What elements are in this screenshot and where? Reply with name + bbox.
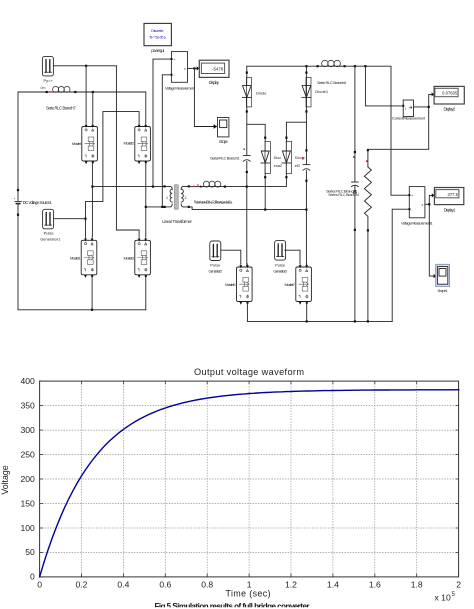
output voltage curve [40,390,459,577]
wire: drop to Mosfet drain port [92,92,94,123]
wire: top bus y=66.2 rectifier output [247,65,321,67]
svg-text:Display2: Display2 [444,106,456,111]
wire: main secondary to Diode3 bottom [247,174,287,187]
wire: bottom bus2 y=321.4 [247,320,392,322]
wire: VM1 output to Display1 and Scope1 [425,195,434,276]
node: junction feeding Mosfet drain [92,91,94,93]
node: right leg mid junction [145,206,147,208]
resistor red polarity tick at L7 left [49,91,51,92]
grid vertical dotted [81,381,83,577]
diode Diode2 (small left snubber) [261,142,270,174]
svg-text:Generator3: Generator3 [273,268,287,273]
svg-text:0: 0 [37,580,42,590]
wire: secondary top to L5 [189,186,203,188]
wire: top bus after L6 to corner x=391 [341,66,409,195]
Display block (-5478) [197,66,200,70]
wire: left leg midpoint down Mosfet to Mosfet1 [91,161,93,236]
svg-text:-5478: -5478 [212,66,224,71]
grid horizontal dotted [40,551,459,553]
Display1 block (377.5) [434,188,463,205]
node: VM plus tap [152,186,154,188]
diode Diode (big left) [242,77,251,107]
wire: PG3 to Mosfet7 gate [285,250,300,263]
svg-text:Mosfet1: Mosfet1 [70,255,81,260]
wire: Mosfet7 source to bus2 [306,302,308,322]
svg-text:Series RLC Branch4: Series RLC Branch4 [328,192,360,197]
inductor L6 Series RLC Branch6 [321,65,341,67]
svg-text:+: + [173,58,175,62]
wire: drop to Scope [194,68,213,126]
transistor Mosfet2 (top-right) [135,123,151,164]
wire: CM output to junction [414,106,429,108]
svg-text:Display: Display [209,80,220,85]
wire: VM output to Display [188,67,197,69]
svg-text:Generator2: Generator2 [209,268,223,273]
transistor Mosfet (top-left) [82,123,98,164]
diode Diode3 (small right snubber) [282,142,291,174]
svg-text:+: + [411,194,413,198]
op-amp U2: Voltage Measurement1 block [409,187,425,218]
wire: L5 to rectifier node [221,186,247,188]
svg-text:150: 150 [20,498,35,508]
svg-text:Mosfet2: Mosfet2 [124,141,135,146]
wire: below Diode down through cap branch1 [246,107,248,267]
wire: VM minus tap vertical [162,75,171,207]
pulse generator Pulse Generator3 [275,241,286,261]
svg-text:0.6: 0.6 [159,580,171,590]
wire: small diode left bottom to wire B [264,174,266,210]
svg-text:1: 1 [166,196,168,200]
wire: CM out node to load top y=149.3 [368,94,432,149]
svg-text:Discrete,: Discrete, [151,28,164,33]
inductor L5 Series RLC Branch5 [203,186,221,188]
svg-text:377.5: 377.5 [448,192,459,197]
svg-text:0.8: 0.8 [201,580,213,590]
svg-text:DC Voltage Source1: DC Voltage Source1 [23,200,53,205]
wire: snubber top left y=124.3 [247,124,265,141]
svg-text:0.2: 0.2 [76,580,88,590]
wire: small diode right top to right vertical [286,122,306,141]
svg-text:CurrentMeasurement: CurrentMeasurement [392,116,426,121]
svg-text:2: 2 [456,580,461,590]
svg-text:Mosfet: Mosfet [72,141,82,146]
svg-text:Scope1: Scope1 [437,288,448,293]
node: junction to scope [193,67,195,69]
node: L7 right terminal [74,91,76,93]
svg-text:Diode1: Diode1 [315,89,328,94]
filter capacitor branch Series RLC Branch2 x=354.9 [354,66,356,321]
wire: VM plus tap vertical [153,59,171,187]
wire B: transformer secondary bottom to right vertical [189,207,307,210]
svg-text:powergui: powergui [151,48,164,53]
transformer: Linear Transformer [175,185,179,209]
svg-text:1.8: 1.8 [411,580,423,590]
svg-text:2: 2 [185,196,187,200]
svg-text:Py=+: Py=+ [44,78,54,83]
capacitor Series RLC Branch1 [243,155,250,157]
wire: transformer primary top y=186.6 [92,186,164,188]
svg-text:Serie RLC Branch7: Serie RLC Branch7 [46,106,76,111]
wire: right rectifier vertical x=306.4 [305,66,307,267]
svg-text:1.4: 1.4 [327,580,339,590]
wire: rail1 drop to Mosfet gate [85,66,87,123]
svg-text:0m: 0m [41,86,46,90]
svg-text:SeriesRLCBranch3: SeriesRLCBranch3 [195,200,233,205]
diode Diode1 (big right) [302,77,311,107]
svg-text:50: 50 [25,547,35,557]
svg-text:Voltage Measurement: Voltage Measurement [165,86,195,91]
capacitor on right vertical (Series RLC Branch3) [303,164,310,166]
transistor Mosfet5 [237,264,253,305]
node: DC source bottom port [17,214,19,216]
svg-text:1.6: 1.6 [369,580,381,590]
node: L7 left terminal [46,91,48,93]
node: secondary node at x=246.8 y=186.6 [246,186,248,188]
svg-text:ena2: ena2 [274,164,282,168]
svg-text:Voltage Measurement1: Voltage Measurement1 [401,220,433,225]
axis ticks [39,574,41,577]
svg-text:0.07605: 0.07605 [442,91,458,96]
svg-text:v: v [421,203,423,207]
wire: pulse gen Pg output rail y=65.8 [54,65,117,67]
svg-text:Mosfet3: Mosfet3 [124,255,135,260]
svg-text:Dioc: Dioc [274,156,282,160]
svg-text:Generator1: Generator1 [40,237,61,242]
svg-text:v: v [184,67,186,71]
svg-text:Mosfet7: Mosfet7 [285,282,296,287]
transistor Mosfet1 (bottom-left) [81,237,97,278]
node: bottom bus junction [91,309,93,311]
svg-text:350: 350 [20,400,35,410]
wire: right leg midpoint down Mosfet2 to Mosfet3 [145,161,147,236]
svg-text:Display1: Display1 [444,207,456,212]
wire: left rectifier vertical x=246.8 top bus corner to Diode [246,66,248,77]
inductor L7 Series RLC Branch7 [52,91,70,93]
wire: VM1 minus to bottom bus [392,209,409,321]
pulse generator Pulse Generator1 [43,209,54,229]
Scope block [218,118,229,137]
svg-text:400: 400 [20,376,35,386]
wire: Mosfet3 source to bottom bus [145,275,147,310]
svg-text:Pulse: Pulse [210,263,221,268]
DC Voltage Source1 battery [15,201,22,203]
svg-text:Diode: Diode [256,90,267,95]
node: junction on rail1 feeding Mosfet gate [85,65,87,67]
wire: DC+ rail from L7 to Mosfet2 drain [71,92,146,123]
transistor Mosfet7 [296,264,312,305]
svg-text:300: 300 [20,425,35,435]
load resistor Series RLC Branch4 x=367.9 [367,149,369,321]
svg-text:5: 5 [452,591,456,598]
svg-text:Serie RLC Branch6: Serie RLC Branch6 [317,80,347,85]
current measurement block [403,100,413,117]
wire: transformer primary bottom y=206.9 [146,206,165,208]
svg-text:x 10: x 10 [435,593,451,603]
wire: Pulse Generator1 output to Mosfet1 gate node [54,218,86,220]
svg-text:Pulse: Pulse [44,231,55,236]
svg-text:ef2: ef2 [295,164,300,168]
node: DC source top port [17,189,19,191]
wire: crossover gate wire y=111.6 Mosfet2 gate to Mosfet1 gate [86,112,140,237]
svg-text:Linear Transformer: Linear Transformer [162,219,192,224]
powergui block [144,23,171,45]
wire: bus drop to Current Measurement [365,66,403,106]
svg-text:Mosfet5: Mosfet5 [225,282,236,287]
node: gate node Mosfet1 [84,218,86,220]
red polarity ticks at transformer secondary [193,186,195,187]
svg-text:Serial RLC Branch1: Serial RLC Branch1 [210,155,240,160]
svg-text:+: + [13,197,15,201]
node: VM minus tap [161,206,163,208]
plot axes box [40,381,459,577]
wire: PG2 to Mosfet5 gate [221,250,241,263]
svg-text:Output voltage waveform: Output voltage waveform [194,367,304,377]
node: left leg mid junction [91,186,93,188]
svg-text:Time (sec): Time (sec) [226,589,271,599]
pulse generator Pulse Generator2 [210,241,221,261]
svg-text:Pulse: Pulse [275,263,286,268]
wire: DC+ rail y=92 from left rail to L7 [18,91,52,93]
svg-text:1.2: 1.2 [285,580,297,590]
op-amp U: Voltage Measurement block [171,52,187,83]
svg-text:Ts = 5e-05 s.: Ts = 5e-05 s. [149,35,167,40]
svg-text:100: 100 [20,523,35,533]
wire: rail1 corner down x=115.8 to Mosfet3 gate [116,66,139,237]
svg-text:0: 0 [30,572,35,582]
transistor Mosfet3 (bottom-right) [135,237,151,278]
pulse generator Pg (top) [42,56,53,76]
svg-text:Voltage: Voltage [0,465,10,494]
svg-text:Scope: Scope [219,139,229,144]
wire: left DC rail x=18 [18,92,146,310]
Scope1 block [436,264,450,286]
svg-text:200: 200 [20,474,35,484]
wire: Mosfet5 source to bus2 [246,302,248,322]
Display2 block (0.07605) [432,92,435,96]
wire: Mosfet1 source to bottom bus [91,275,93,310]
svg-text:0.4: 0.4 [117,580,129,590]
node: L5 right terminal [224,186,226,188]
svg-text:250: 250 [20,449,35,459]
